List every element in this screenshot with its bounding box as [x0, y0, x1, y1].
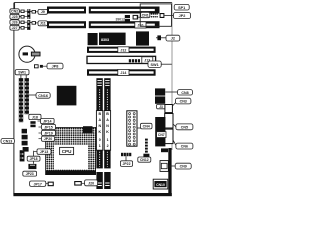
- svg-text:J9: J9: [41, 10, 45, 14]
- jumper icon below battery: [34, 64, 43, 68]
- power connector CN17: [127, 111, 142, 146]
- corner connector box outline: [140, 4, 171, 26]
- label SW1: [15, 70, 29, 75]
- SIMM socket BANK0: [96, 78, 102, 189]
- edge connector CN6: [165, 129, 173, 144]
- chip U7: [136, 31, 149, 45]
- wires from SW1 to headers: [21, 75, 26, 78]
- label JP14: [38, 118, 55, 123]
- pin header CN15: [25, 78, 29, 114]
- svg-text:CN12: CN12: [140, 158, 149, 162]
- IO chip U10: [155, 117, 165, 146]
- label CN22: [10, 25, 19, 30]
- plug icon mid top: [133, 15, 140, 20]
- label JP23: [23, 171, 37, 176]
- svg-text:B: B: [98, 112, 101, 116]
- CPU socket U1: [46, 127, 96, 174]
- label CN16: [36, 93, 50, 99]
- svg-text:JP19: JP19: [44, 131, 52, 135]
- plug icon bottom center: [74, 181, 84, 186]
- label CN9: [175, 163, 191, 169]
- plug icon row4: [19, 26, 24, 29]
- PCI slot 3: [87, 69, 156, 75]
- svg-text:CPU: CPU: [62, 149, 72, 154]
- svg-text:A: A: [98, 118, 101, 122]
- label CN20: [10, 14, 19, 19]
- label J11: [36, 21, 48, 26]
- connector at J8 bottom: [143, 154, 149, 158]
- label J20: [85, 180, 98, 186]
- plug icon top right: [160, 13, 165, 18]
- wire to JP2: [164, 15, 174, 17]
- svg-text:J11: J11: [40, 22, 46, 26]
- svg-text:SP1: SP1: [178, 6, 185, 10]
- svg-text:J3: J3: [159, 105, 163, 109]
- svg-text:J14: J14: [120, 71, 126, 75]
- jumper below J18: [30, 121, 35, 127]
- label CPU: [60, 147, 74, 154]
- svg-text:CN4: CN4: [143, 125, 150, 129]
- svg-text:CN16: CN16: [38, 94, 48, 98]
- label CN1 in corner box: [141, 12, 150, 17]
- svg-text:39012: 39012: [116, 17, 126, 21]
- jumper icon J2: [156, 35, 161, 40]
- wire to J2 label: [161, 37, 166, 39]
- svg-text:1: 1: [99, 144, 101, 148]
- plug icon row2: [19, 15, 24, 18]
- svg-text:1: 1: [107, 138, 109, 142]
- svg-text:0: 0: [99, 138, 101, 142]
- label JP13: [34, 149, 51, 154]
- svg-text:JP2: JP2: [179, 14, 186, 18]
- PCI slot 2 (open): [87, 56, 156, 63]
- regulator block at socket top right: [83, 126, 93, 133]
- chip above CN10: [161, 148, 168, 152]
- svg-text:B: B: [106, 112, 109, 116]
- PCI slot 1: [87, 47, 156, 53]
- plug icon to J11: [30, 21, 36, 24]
- svg-text:J25: J25: [12, 15, 18, 19]
- label CN5: [176, 124, 193, 130]
- svg-text:JP15: JP15: [44, 125, 52, 129]
- wire to CN3 label: [172, 103, 177, 106]
- svg-text:JP8: JP8: [52, 65, 59, 69]
- SIMM socket BANK1: [104, 78, 110, 189]
- svg-text:CN2: CN2: [11, 10, 18, 14]
- label J12 on PCI slot 1: [118, 47, 129, 53]
- svg-text:A: A: [106, 118, 109, 122]
- svg-text:CN5: CN5: [181, 126, 188, 130]
- ISA slot 2 segment A: [47, 21, 86, 28]
- svg-text:K: K: [98, 130, 101, 134]
- svg-text:CN13: CN13: [3, 140, 12, 144]
- chip U9: [155, 96, 165, 103]
- svg-text:J20: J20: [88, 182, 94, 186]
- label CN7 on chip: [157, 132, 166, 138]
- label J9: [36, 9, 48, 14]
- label CN21: [10, 20, 19, 25]
- wire to CN6 label: [173, 140, 177, 146]
- plug icon row3: [19, 21, 24, 24]
- svg-text:CN9: CN9: [180, 165, 187, 169]
- label CN6: [176, 143, 193, 149]
- CN11 black connector box bottom right: [153, 179, 168, 189]
- label JP8: [43, 63, 63, 69]
- jumper block pair between slots: [125, 15, 130, 22]
- pin header bar upper (rows1-2): [25, 9, 31, 18]
- label JP2: [173, 13, 190, 19]
- svg-text:J27: J27: [12, 26, 18, 30]
- svg-text:JP13: JP13: [40, 150, 48, 154]
- board right-bottom thick edge bar: [168, 148, 171, 196]
- label CN8: [178, 90, 193, 95]
- svg-text:JP17: JP17: [33, 182, 41, 186]
- svg-text:J12: J12: [120, 48, 126, 52]
- chip U5: [88, 33, 98, 45]
- label JP18 bottom left: [27, 151, 40, 164]
- svg-text:JP22: JP22: [123, 162, 131, 166]
- pin header CN14 (left tall): [19, 78, 23, 122]
- label CN13 at left edge: [1, 139, 14, 144]
- wire to CN9 label: [168, 165, 176, 167]
- label J3 small: [157, 104, 166, 109]
- ISA slot 2 segment B: [89, 21, 160, 28]
- board outline right edge: [171, 3, 173, 150]
- jumper JP21 icon: [121, 153, 131, 156]
- ISA slot 1 segment B: [89, 7, 160, 14]
- label JP15: [39, 124, 56, 129]
- label J13 on PCI slot 2: [142, 57, 153, 63]
- board outline top edge: [14, 2, 172, 4]
- label BT1: [30, 181, 46, 186]
- label J14 on PCI slot 3: [118, 69, 129, 75]
- label SW2 right mid: [148, 61, 172, 67]
- svg-text:JP20: JP20: [44, 137, 52, 141]
- svg-text:JP14: JP14: [43, 120, 51, 124]
- svg-text:J26: J26: [12, 21, 18, 25]
- wire to CN8 label: [165, 91, 177, 93]
- label JP21: [120, 156, 132, 166]
- svg-text:CN3: CN3: [180, 100, 187, 104]
- svg-text:SW1: SW1: [150, 63, 158, 67]
- chip U8: [155, 88, 165, 95]
- svg-text:K: K: [106, 130, 109, 134]
- svg-text:JP23: JP23: [26, 172, 34, 176]
- chipset U2: [57, 86, 77, 106]
- edge connector CN5: [165, 114, 173, 129]
- CN10 boxed connector: [160, 161, 168, 172]
- svg-text:CN1: CN1: [142, 14, 149, 18]
- pin column J8: [145, 139, 148, 153]
- label JP19: [39, 130, 56, 135]
- pin dots pair rows: [151, 13, 158, 17]
- label SP1: [174, 4, 189, 10]
- jumper right of BT1: [46, 182, 54, 187]
- svg-text:CN8: CN8: [181, 91, 188, 95]
- label J10 on ISA slot 2: [135, 22, 146, 28]
- plug icon to J9: [30, 10, 36, 13]
- plug icon row1: [19, 10, 24, 13]
- wire from top edge to CN2 label: [14, 3, 16, 9]
- svg-text:N: N: [98, 124, 101, 128]
- jumper column blocks left: [22, 129, 29, 152]
- svg-text:CN10: CN10: [156, 183, 165, 187]
- svg-text:8303: 8303: [101, 38, 109, 42]
- svg-text:JP18: JP18: [30, 157, 38, 161]
- svg-text:2: 2: [107, 144, 109, 148]
- pin row on PCI slot 2: [129, 59, 140, 62]
- label CN12: [138, 157, 151, 162]
- board outline bottom edge: [13, 193, 171, 196]
- jumper icon JP18: [28, 164, 36, 169]
- board outline left edge: [13, 3, 15, 195]
- svg-text:CN6: CN6: [181, 145, 188, 149]
- label CN2: [10, 9, 19, 14]
- chip U6 w83977: [99, 33, 126, 45]
- label CN3: [176, 98, 191, 104]
- battery BT1: [19, 46, 40, 62]
- label JP20: [39, 136, 55, 141]
- wire to CN5 label: [173, 124, 177, 127]
- wire to CN16 label: [28, 94, 36, 96]
- pin header lower left: [20, 150, 24, 161]
- pin header bar lower (rows3-4): [25, 20, 31, 29]
- svg-text:J18: J18: [32, 116, 38, 120]
- label J2: [166, 35, 180, 41]
- svg-text:J2: J2: [171, 37, 175, 41]
- label CN17 (power): [140, 123, 152, 129]
- label J18: [29, 114, 41, 119]
- ISA slot 1 segment A: [47, 7, 86, 14]
- svg-text:N: N: [106, 124, 109, 128]
- edge connector CN4: [165, 105, 173, 113]
- svg-text:CN7: CN7: [158, 133, 165, 137]
- svg-text:SW1: SW1: [18, 71, 26, 75]
